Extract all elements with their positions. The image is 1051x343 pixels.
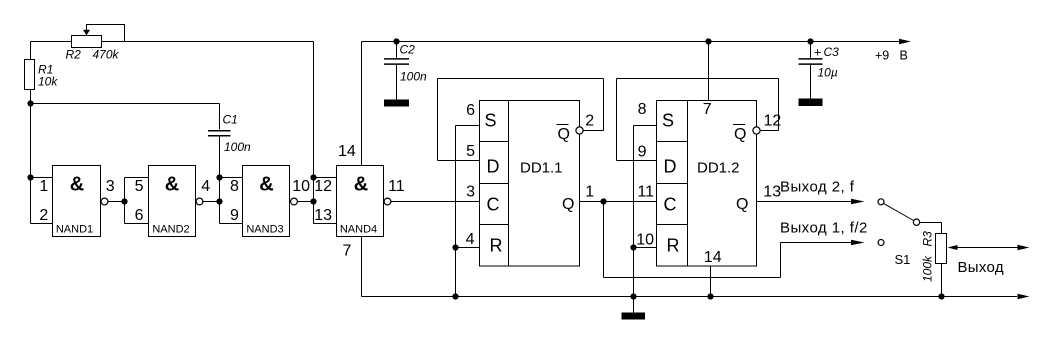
svg-text:7: 7 [703, 101, 712, 118]
svg-text:13: 13 [314, 207, 332, 224]
flip-flop DD1.1 [480, 101, 580, 267]
node: R1/C1 junction [27, 100, 33, 106]
svg-text:C: C [487, 195, 500, 215]
svg-text:Выход: Выход [958, 259, 1004, 276]
+9V arrowhead [899, 39, 911, 45]
svg-text:5: 5 [466, 143, 475, 160]
NAND gate NAND3 [243, 166, 290, 237]
node: Q1 junction [600, 198, 606, 204]
node: DD1.1 S/R to rail [452, 293, 458, 299]
wire: NAND2 out to NAND3 node [203, 178, 243, 224]
NAND gate NAND1 [53, 166, 101, 237]
svg-text:&: & [70, 174, 84, 196]
R2 wiper arrowhead [83, 30, 90, 36]
svg-text:Выход 2, f: Выход 2, f [780, 179, 855, 196]
svg-text:S: S [662, 111, 674, 131]
C3 plates [799, 59, 823, 64]
capacitor C1 [208, 131, 231, 136]
svg-text:DD1.1: DD1.1 [520, 160, 563, 177]
switch S1 blade [884, 204, 914, 221]
svg-text:C3: C3 [824, 45, 840, 59]
capacitor C3 (polarized) [810, 42, 812, 99]
svg-text:11: 11 [637, 184, 654, 201]
arrowhead Vyhod 1 [851, 240, 865, 246]
flip-flop DD1.2 [657, 101, 757, 267]
svg-text:Q: Q [558, 126, 570, 143]
wire: common contact to R3 [920, 223, 942, 234]
svg-text:470k: 470k [93, 48, 120, 62]
wire: DD1.2 Q-bar loop to D [617, 79, 779, 161]
ground (C3) [799, 99, 823, 107]
node: NAND2 input junction [121, 198, 127, 204]
svg-text:7: 7 [343, 243, 352, 260]
svg-text:R: R [667, 236, 680, 256]
svg-text:NAND4: NAND4 [340, 224, 377, 236]
resistor R1 [25, 60, 35, 90]
DD1.2 Q-bar bubble [753, 127, 760, 134]
svg-text:5: 5 [135, 178, 144, 195]
NAND gate NAND4 [337, 166, 384, 237]
svg-text:&: & [165, 174, 179, 196]
NAND1 output bubble [101, 198, 108, 205]
svg-text:NAND1: NAND1 [56, 224, 93, 236]
wire: DD1.2 pin7 riser [708, 42, 710, 101]
capacitor C2 [396, 42, 398, 100]
svg-text:14: 14 [704, 249, 722, 266]
wire: DD1.2 S stub and S/R ground line [634, 126, 657, 297]
wire: DD1.2 Q output (Vyhod 2) [757, 201, 852, 203]
svg-text:3: 3 [466, 184, 475, 201]
svg-text:1: 1 [39, 178, 48, 195]
wire: R3 bottom to rail [941, 264, 943, 297]
svg-text:14: 14 [338, 143, 356, 160]
svg-text:100n: 100n [224, 140, 251, 154]
wire: NAND4 pin7 drop to ground rail [361, 237, 363, 297]
node: R3 to ground rail junction [938, 293, 944, 299]
node: DD1.2 R junction [630, 244, 636, 250]
wire: NAND1 out to NAND2 inputs [108, 178, 149, 224]
DD1.1 Q-bar bubble [576, 127, 583, 134]
wire: DD1.1 Q output to DD1.2 C [580, 201, 657, 203]
svg-text:10k: 10k [38, 75, 58, 89]
NAND4 output bubble [384, 198, 391, 205]
node: DD1.2 S/R to rail (ground symbol node) [630, 293, 636, 299]
node: NAND1 input junction [27, 174, 33, 180]
node: NAND4 input junctions [310, 174, 316, 180]
wire: R2 left wire and R1 feed, corner at (30,41) [31, 42, 72, 60]
svg-text:Q: Q [562, 196, 574, 213]
NAND gate NAND2 [149, 166, 196, 237]
svg-text:NAND3: NAND3 [246, 224, 283, 236]
svg-text:C: C [664, 195, 677, 215]
svg-text:R2: R2 [66, 48, 82, 62]
node: C2 to rail junction [393, 38, 399, 44]
svg-text:+: + [814, 46, 821, 60]
svg-text:В: В [900, 49, 908, 63]
svg-text:R3: R3 [921, 231, 935, 247]
wire: NAND4 output to DD1.1 C [391, 201, 480, 203]
node: DD1.1 R junction [452, 244, 458, 250]
+9V rail [362, 41, 900, 43]
svg-text:10: 10 [636, 232, 654, 249]
wire: NAND3 out to NAND4 node [298, 178, 337, 224]
NAND3 output bubble [291, 198, 298, 205]
wire: R1 bottom to C1 horizontal [31, 90, 220, 224]
svg-text:2: 2 [585, 113, 594, 130]
svg-text:S: S [485, 111, 497, 131]
svg-text:Q: Q [736, 196, 748, 213]
svg-text:+9: +9 [875, 49, 889, 63]
svg-text:10µ: 10µ [818, 66, 838, 80]
svg-text:13: 13 [763, 184, 781, 201]
svg-text:4: 4 [201, 178, 210, 195]
resistor R3 [936, 234, 947, 264]
svg-text:100n: 100n [400, 70, 427, 84]
svg-text:1: 1 [585, 184, 594, 201]
switch S1 contact (Vyhod 2) [878, 199, 884, 205]
svg-text:D: D [664, 157, 677, 177]
wire: R2 right to NAND4 input riser [102, 42, 314, 224]
svg-text:10: 10 [292, 178, 310, 195]
ground rail arrowhead [1018, 294, 1030, 300]
ground (C2) [384, 100, 409, 107]
wire: DD1.1 Q-bar loop to D [438, 79, 604, 161]
svg-text:S1: S1 [895, 252, 911, 267]
svg-text:C1: C1 [223, 113, 238, 127]
R2 wiper arm [87, 25, 125, 42]
C2 plates [384, 59, 409, 64]
node: pin7 to rail junction [705, 38, 711, 44]
svg-text:9: 9 [638, 144, 647, 161]
svg-text:9: 9 [230, 207, 239, 224]
svg-text:2: 2 [39, 207, 48, 224]
svg-text:C2: C2 [400, 43, 416, 57]
node: pin14 to ground rail junction [707, 293, 713, 299]
main ground symbol [633, 297, 635, 313]
svg-text:D: D [487, 157, 500, 177]
svg-text:100k: 100k [921, 255, 935, 282]
svg-text:&: & [354, 174, 368, 196]
ground rail [362, 296, 1018, 298]
wire: DD1.1 S stub and S/R ground line [456, 126, 480, 297]
wire: C1 bottom to NAND3 input node [219, 136, 221, 223]
svg-text:6: 6 [135, 207, 144, 224]
node: C3 to rail junction [807, 38, 813, 44]
wire: NAND1 input stubs [31, 178, 53, 224]
svg-text:3: 3 [106, 178, 115, 195]
svg-text:12: 12 [314, 178, 332, 195]
wire: DD1.2 pin14 drop [710, 266, 712, 297]
switch S1 common contact [913, 219, 919, 225]
svg-text:4: 4 [466, 231, 475, 248]
svg-text:8: 8 [230, 178, 239, 195]
switch S1 contact (Vyhod 1) [878, 240, 884, 246]
resistor R2 [72, 36, 102, 48]
svg-text:DD1.2: DD1.2 [697, 160, 740, 177]
svg-text:NAND2: NAND2 [152, 224, 189, 236]
svg-text:11: 11 [388, 178, 405, 195]
svg-text:Выход 1, f/2: Выход 1, f/2 [780, 220, 868, 237]
wire: NAND4 pin14 riser [361, 42, 363, 166]
wire: Q1 down and around to Vyhod1 [604, 202, 852, 278]
svg-text:8: 8 [638, 101, 647, 118]
NAND2 output bubble [196, 198, 203, 205]
svg-text:&: & [259, 174, 273, 196]
svg-text:6: 6 [466, 102, 475, 119]
svg-text:R: R [490, 236, 503, 256]
arrowhead Vyhod 2 [851, 199, 865, 205]
svg-text:Q: Q [734, 126, 746, 143]
output line with double arrows [956, 247, 1018, 249]
node: NAND3 input junctions [216, 174, 222, 180]
